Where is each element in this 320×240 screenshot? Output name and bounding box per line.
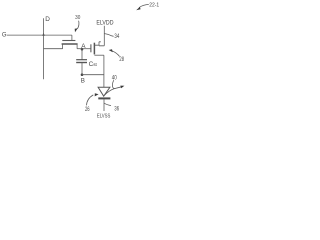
wire: Q2 source lead: [94, 54, 104, 56]
svg-text:G: G: [2, 33, 7, 39]
leader arrow for 26: [87, 95, 94, 106]
leader arrow for 22-1: [139, 4, 149, 7]
svg-text:30: 30: [75, 15, 80, 21]
wire: switching TFT gate lead: [71, 35, 73, 40]
wire: Q2 drain lead stair up to ELVDD line: [94, 26, 104, 46]
transistor Q2 gate bar (driving TFT 28): [90, 44, 92, 52]
node B junction dot: [81, 73, 84, 76]
wire: capacitor upper lead: [81, 49, 83, 60]
wire: Q1 drain lead to node A and Q2 gate: [77, 48, 91, 50]
svg-text:28: 28: [119, 57, 124, 63]
leader arrow for 30: [78, 21, 79, 29]
wire: cathode lead to ELVSS: [103, 99, 105, 111]
arrowhead of 28 leader: [109, 49, 113, 52]
transistor Q1 channel bar: [62, 43, 78, 45]
wire: OLED anode line: [103, 55, 105, 87]
wire: Q1 source lead to D line: [44, 48, 63, 50]
svg-text:ELVDD: ELVDD: [96, 20, 114, 27]
transistor Q1 gate bar (switching TFT 30): [62, 40, 75, 42]
svg-text:D: D: [45, 16, 50, 23]
diode cathode bar: [98, 97, 110, 99]
leader arrow for 28: [112, 51, 120, 57]
wire: gate line G horizontal: [7, 34, 72, 36]
svg-text:ELVSS: ELVSS: [97, 114, 110, 120]
transistor Q1 drain leg: [76, 44, 78, 49]
wire: data line D vertical: [43, 18, 45, 79]
svg-text:A: A: [81, 43, 86, 50]
svg-text:36: 36: [114, 107, 119, 113]
svg-text:Cst: Cst: [89, 61, 98, 68]
node: G/D crossing blob: [42, 33, 45, 36]
arrowhead of 22-1 leader: [136, 7, 140, 10]
svg-text:40: 40: [112, 76, 117, 82]
leader line for 34: [105, 34, 114, 37]
svg-text:22-1: 22-1: [149, 3, 159, 9]
transistor Q2 channel bar: [93, 43, 95, 55]
svg-text:B: B: [81, 78, 85, 85]
leader arrow for 40 descender: [112, 80, 115, 88]
leader arrow for 40 cross swoosh: [104, 87, 121, 96]
diode 40 OLED triangle: [98, 87, 110, 96]
wire: capacitor lower lead: [81, 63, 83, 75]
arrowhead of 30 leader: [75, 28, 78, 32]
arrowhead of 40 leader: [120, 86, 124, 89]
arrowhead of 26 leader: [95, 93, 99, 96]
svg-text:34: 34: [114, 34, 119, 40]
transistor Q1 source leg: [62, 44, 64, 49]
node A junction dot: [81, 48, 84, 51]
capacitor Cst bottom plate: [76, 62, 87, 64]
wire: node B horizontal to OLED anode line: [82, 74, 104, 76]
capacitor Cst top plate: [76, 59, 87, 61]
leader line for 36: [104, 103, 111, 105]
svg-text:26: 26: [85, 107, 90, 113]
